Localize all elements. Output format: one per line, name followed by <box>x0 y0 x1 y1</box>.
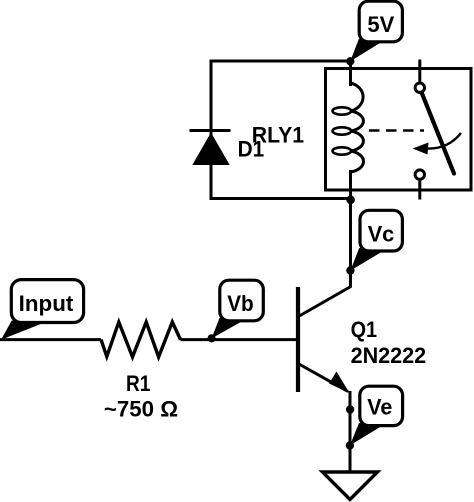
svg-text:Input: Input <box>19 291 74 316</box>
svg-text:D1: D1 <box>238 137 265 162</box>
svg-text:Vb: Vb <box>227 291 254 316</box>
svg-text:2N2222: 2N2222 <box>351 343 427 368</box>
svg-text:Q1: Q1 <box>351 317 378 342</box>
svg-text:~750 Ω: ~750 Ω <box>104 396 178 421</box>
svg-text:Vc: Vc <box>368 221 395 246</box>
svg-text:Ve: Ve <box>367 395 392 420</box>
svg-text:5V: 5V <box>367 12 394 37</box>
svg-text:R1: R1 <box>126 371 150 396</box>
